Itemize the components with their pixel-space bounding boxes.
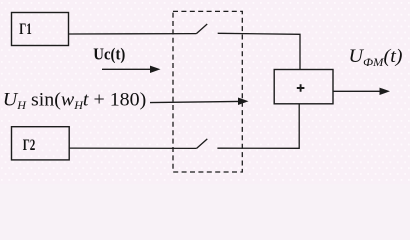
svg-text:Uc(t): Uc(t) <box>93 45 125 64</box>
generator block G1 <box>12 13 69 46</box>
switch S2 arm (open) <box>197 139 208 149</box>
generator block G2 <box>12 127 70 160</box>
dashed boundary box (commutator) <box>173 11 242 172</box>
carrier input arrow through dashed box <box>150 98 249 106</box>
wire from G1 to switch S1 <box>69 33 197 35</box>
wire from switch S1 to summing node corner <box>218 33 300 69</box>
output arrow from summing block <box>333 88 390 95</box>
svg-text:Г2: Г2 <box>23 137 36 154</box>
wire from summing block bottom to switch S2 corner <box>217 104 299 149</box>
summing block + <box>274 70 333 104</box>
switch S1 arm (open) <box>196 24 207 34</box>
arrow for Uc(t) input <box>102 66 161 73</box>
wire from G2 to switch S2 <box>69 147 196 149</box>
svg-text:Г1: Г1 <box>19 21 32 38</box>
